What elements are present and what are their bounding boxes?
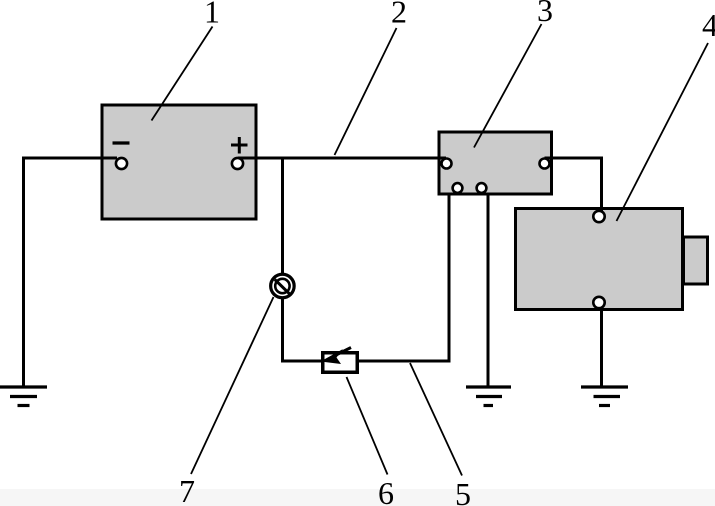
ground (right, motor)	[581, 387, 628, 406]
ground (left, battery)	[0, 387, 47, 406]
wire: battery positive to relay box 3 left terminal	[238, 157, 446, 160]
battery minus sign	[113, 141, 130, 144]
wire: relay bottom-right leg down to ground	[487, 194, 490, 386]
leader line 1	[152, 27, 213, 121]
leader line 2	[335, 28, 397, 155]
relay box 3	[439, 132, 552, 194]
motor tab (box 4 side lug)	[684, 237, 708, 284]
bottom scan band	[0, 489, 715, 506]
leader line 7	[191, 297, 274, 474]
wire: lamp bottom down then right to component 6	[283, 298, 322, 361]
battery negative terminal	[116, 158, 127, 169]
battery box 1	[102, 105, 256, 219]
svg-text:7: 7	[179, 473, 195, 506]
relay bottom terminal a	[453, 183, 463, 193]
svg-text:1: 1	[204, 0, 220, 30]
wire 5: component 6 right side to relay bottom-left	[359, 194, 449, 361]
leader line 3	[474, 24, 542, 148]
leader line 4	[617, 43, 709, 221]
relay terminal right	[540, 159, 550, 169]
wire: relay right terminal to motor box 4 top terminal	[545, 158, 602, 213]
lamp 7 inner circle	[275, 279, 289, 293]
wire: motor bottom terminal down to ground	[600, 305, 603, 386]
motor box 4	[516, 209, 683, 310]
component 6 arrowhead	[321, 349, 344, 364]
svg-text:4: 4	[702, 7, 715, 43]
motor bottom terminal	[593, 297, 604, 308]
leader line 5	[410, 363, 462, 476]
component 6 body	[323, 353, 358, 373]
svg-text:3: 3	[537, 0, 553, 28]
ground (middle, relay)	[466, 387, 511, 406]
svg-text:5: 5	[455, 476, 471, 506]
battery plus sign	[231, 137, 248, 154]
battery positive terminal	[232, 158, 243, 169]
wire: branch down from main wire to lamp 7	[281, 158, 284, 274]
wire: left leg from battery negative to ground	[24, 158, 118, 386]
component 6 arrow shaft	[336, 348, 351, 356]
lamp 7 outer circle	[271, 274, 295, 298]
svg-text:6: 6	[378, 475, 394, 506]
motor top terminal	[593, 211, 604, 222]
relay bottom terminal b	[477, 183, 487, 193]
lamp 7 slash	[275, 280, 290, 294]
leader line 6	[347, 377, 388, 475]
relay terminal left	[442, 159, 452, 169]
svg-text:2: 2	[391, 0, 407, 30]
